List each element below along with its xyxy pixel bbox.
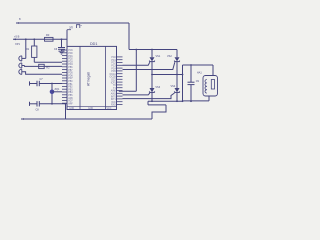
svg-text:R3: R3 xyxy=(46,33,50,37)
svg-text:ARF: ARF xyxy=(68,102,73,105)
svg-text:PD6: PD6 xyxy=(68,75,73,77)
svg-text:VS1: VS1 xyxy=(156,55,161,58)
svg-text:PB6: PB6 xyxy=(68,67,73,69)
svg-text:INT0: INT0 xyxy=(111,96,117,98)
svg-text:PD5: PD5 xyxy=(68,73,73,75)
svg-text:ATmega8: ATmega8 xyxy=(87,72,91,86)
svg-text:PD0: PD0 xyxy=(68,53,73,55)
svg-text:XCK: XCK xyxy=(111,102,116,104)
svg-text:VS2: VS2 xyxy=(167,55,172,58)
svg-text:PB0: PB0 xyxy=(68,81,73,83)
svg-text:PB5: PB5 xyxy=(68,95,73,97)
svg-text:PB2: PB2 xyxy=(68,87,73,89)
svg-text:PC1: PC1 xyxy=(111,60,116,62)
svg-text:VS4: VS4 xyxy=(171,85,176,88)
svg-text:ZQ1: ZQ1 xyxy=(55,88,60,91)
svg-text:AD6: AD6 xyxy=(68,97,73,100)
svg-text:PD4: PD4 xyxy=(68,64,73,66)
svg-text:ICP1: ICP1 xyxy=(111,82,117,84)
svg-text:PB4: PB4 xyxy=(68,92,73,94)
svg-text:PC0: PC0 xyxy=(111,57,116,59)
svg-text:PC6: PC6 xyxy=(68,50,73,52)
svg-text:OC1B: OC1B xyxy=(110,77,117,79)
svg-text:PB7: PB7 xyxy=(68,70,73,72)
svg-text:GND: GND xyxy=(69,108,74,110)
svg-text:PB1: PB1 xyxy=(68,84,73,86)
svg-text:INT1: INT1 xyxy=(111,99,117,101)
svg-text:PC3: PC3 xyxy=(111,66,116,68)
svg-text:PD3: PD3 xyxy=(68,61,73,63)
svg-text:PC5: PC5 xyxy=(111,71,116,73)
svg-text:AD7: AD7 xyxy=(68,100,73,103)
svg-text:PB3: PB3 xyxy=(68,89,73,91)
svg-text:PC4: PC4 xyxy=(111,68,116,70)
svg-text:VCC: VCC xyxy=(107,108,112,110)
svg-text:OC2: OC2 xyxy=(111,80,116,82)
svg-text:GND: GND xyxy=(88,108,93,110)
svg-text:OC1A: OC1A xyxy=(110,73,117,76)
svg-text:HA1: HA1 xyxy=(197,72,202,75)
svg-text:PD2: PD2 xyxy=(68,59,73,61)
svg-text:AIN1: AIN1 xyxy=(111,93,117,96)
svg-text:PD1: PD1 xyxy=(68,56,73,58)
svg-text:DD1: DD1 xyxy=(90,42,97,46)
svg-text:RXD: RXD xyxy=(111,105,116,107)
svg-text:PD7: PD7 xyxy=(68,78,73,80)
svg-text:PC2: PC2 xyxy=(111,63,116,65)
svg-text:ЗП: ЗП xyxy=(69,26,73,30)
svg-text:+5 В: +5 В xyxy=(14,34,20,38)
svg-text:XP1: XP1 xyxy=(15,42,20,46)
svg-text:AIN0: AIN0 xyxy=(111,90,117,93)
svg-text:VS3: VS3 xyxy=(155,86,160,89)
